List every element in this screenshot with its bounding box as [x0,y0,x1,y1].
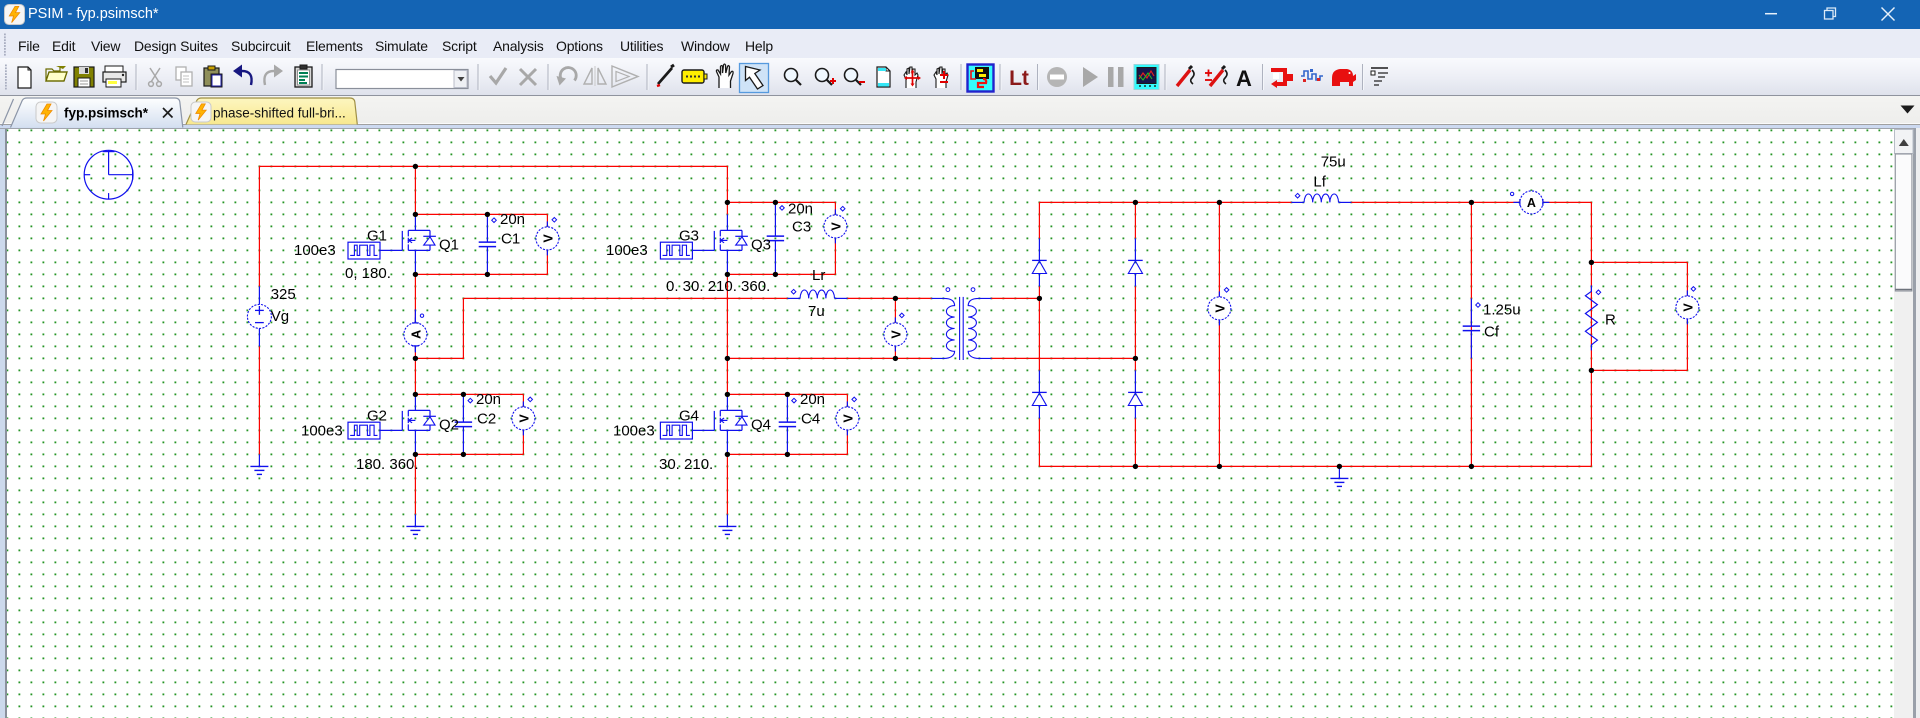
svg-text:20n: 20n [788,201,813,218]
svg-text:180. 360.: 180. 360. [356,456,419,473]
svg-text:C4: C4 [801,411,820,428]
svg-text:Lf: Lf [1313,174,1326,191]
svg-text:V: V [517,414,531,423]
svg-text:A: A [1527,196,1536,210]
svg-text:G1: G1 [367,228,387,245]
svg-text:C1: C1 [501,231,520,248]
svg-text:100e3: 100e3 [606,242,648,259]
svg-text:G4: G4 [679,408,699,425]
svg-text:100e3: 100e3 [294,242,336,259]
svg-text:V: V [1681,303,1695,312]
svg-text:fyp.psimsch*: fyp.psimsch* [64,106,149,121]
svg-text:1.25u: 1.25u [1483,302,1521,319]
svg-text:Q1: Q1 [439,237,459,254]
svg-text:Lr: Lr [812,267,825,284]
svg-text:Q4: Q4 [751,417,771,434]
svg-text:phase-shifted full-bri...: phase-shifted full-bri... [213,106,346,121]
svg-text:100e3: 100e3 [613,423,655,440]
svg-text:Lt: Lt [1009,67,1029,90]
svg-text:0. 30. 210. 360.: 0. 30. 210. 360. [666,278,770,295]
svg-text:G3: G3 [679,228,699,245]
svg-text:Cf: Cf [1484,324,1500,341]
svg-text:V: V [829,222,843,231]
svg-text:C3: C3 [792,219,811,236]
svg-text:V: V [841,414,855,423]
svg-text:A: A [1236,66,1252,91]
svg-text:Q2: Q2 [439,417,459,434]
svg-text:0, 180.: 0, 180. [345,265,391,282]
svg-text:R: R [1605,312,1616,329]
svg-text:20n: 20n [500,211,525,228]
svg-text:G2: G2 [367,408,387,425]
svg-text:7u: 7u [808,303,825,320]
svg-text:Vg: Vg [271,308,289,325]
svg-text:V: V [1213,304,1227,313]
svg-text:V: V [541,234,555,243]
svg-text:75u: 75u [1321,154,1346,171]
svg-text:Q3: Q3 [751,237,771,254]
svg-text:C2: C2 [477,411,496,428]
svg-text:20n: 20n [476,391,501,408]
svg-text:A: A [409,330,423,339]
svg-text:20n: 20n [800,391,825,408]
svg-text:325: 325 [271,286,296,303]
svg-text:V: V [889,330,903,339]
svg-text:30. 210.: 30. 210. [659,456,713,473]
svg-text:100e3: 100e3 [301,423,343,440]
